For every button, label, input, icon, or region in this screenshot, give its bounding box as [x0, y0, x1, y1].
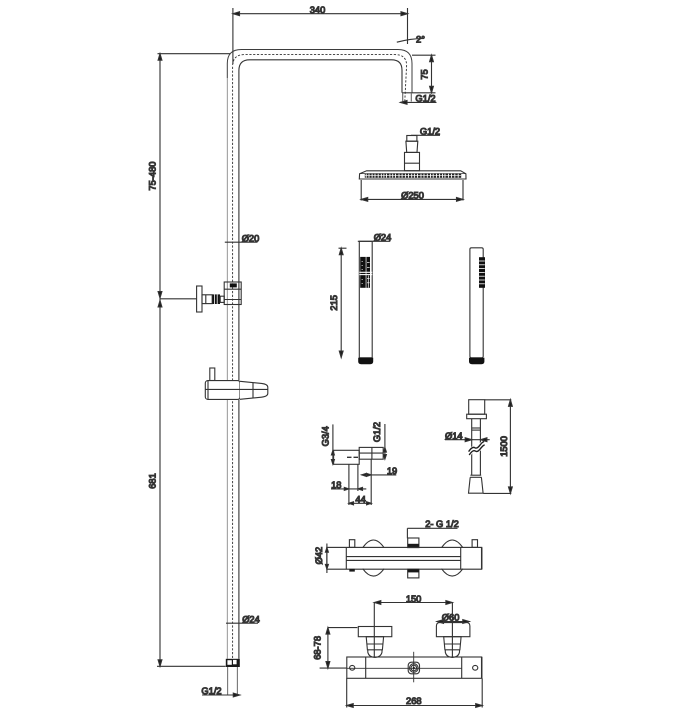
- left screw hole: [350, 665, 355, 670]
- svg-text:G1/2: G1/2: [420, 127, 440, 137]
- wall bracket knob plate: [197, 286, 202, 312]
- arm outlet nipple G1/2: [403, 93, 412, 102]
- mixer top view right valve dome arcs: [442, 540, 463, 576]
- label diameter 14 (hose): [445, 431, 490, 442]
- left escutcheon: [358, 627, 392, 637]
- svg-text:340: 340: [310, 5, 326, 15]
- dimension 75 (outlet drop): [412, 55, 436, 93]
- dimension diameter 60 (escutcheon): [436, 612, 470, 623]
- riser centre line (dashed): [233, 55, 407, 658]
- hose top fitting: [467, 400, 487, 419]
- wall bracket collar: [220, 296, 224, 302]
- mixer top view left tab: [349, 540, 354, 548]
- svg-text:G1/2: G1/2: [372, 422, 382, 442]
- svg-text:Ø24: Ø24: [374, 233, 392, 243]
- hand shower holder knob: [210, 368, 215, 381]
- dimension 340 (arm length): [233, 5, 408, 64]
- svg-text:2°: 2°: [416, 34, 425, 44]
- overhead shower connector stack: [405, 136, 420, 171]
- dimension 44: [349, 495, 371, 505]
- label diameter 20 (riser tube): [225, 233, 259, 243]
- svg-text:268: 268: [406, 696, 422, 706]
- svg-text:19: 19: [387, 466, 397, 476]
- svg-text:G1/2: G1/2: [201, 686, 221, 696]
- label diameter 24 (column bottom): [226, 614, 260, 624]
- svg-text:215: 215: [329, 295, 339, 311]
- right escutcheon: [436, 623, 470, 637]
- svg-text:2- G 1/2: 2- G 1/2: [425, 519, 459, 529]
- shower column riser tube: [227, 50, 412, 659]
- svg-text:75-480: 75-480: [148, 162, 158, 191]
- label G1/2 (head connector): [411, 127, 440, 137]
- wall bracket shaft: [202, 295, 212, 304]
- svg-text:G1/2: G1/2: [415, 94, 435, 104]
- left inlet centre line: [373, 603, 375, 658]
- label G1/2 (arm outlet): [400, 94, 437, 105]
- overhead shower head disc: [359, 171, 466, 179]
- mixer front body bar: [347, 657, 482, 678]
- hand shower side view inlet cap: [358, 358, 373, 364]
- hand shower front view spray strip: [478, 257, 485, 288]
- svg-text:18: 18: [331, 480, 341, 490]
- mixer top view lower port: [408, 569, 419, 578]
- dimension 1500 (hose length): [483, 400, 512, 494]
- label G1/2 (wall union outlet): [372, 422, 386, 459]
- svg-text:Ø14: Ø14: [445, 431, 463, 441]
- mixer top view left valve dome arcs: [363, 540, 384, 576]
- dimension 68-78 (wall distance): [313, 628, 358, 669]
- svg-text:44: 44: [355, 495, 365, 505]
- svg-text:Ø250: Ø250: [401, 191, 424, 201]
- right valve connector stack: [444, 637, 461, 658]
- hose bottom conical fitting: [469, 475, 484, 493]
- dimension 150 (inlet spacing): [374, 594, 452, 604]
- svg-text:Ø42: Ø42: [314, 547, 324, 565]
- svg-text:681: 681: [148, 473, 158, 489]
- hand shower holder body: [205, 381, 267, 400]
- hand shower front view body: [470, 248, 483, 358]
- label 2-G1/2 (mixer connections): [407, 519, 458, 538]
- label diameter 42 (mixer body): [314, 544, 329, 574]
- wall bracket body on tube: [224, 282, 241, 305]
- svg-text:G3/4: G3/4: [320, 426, 330, 446]
- dimension 268 (body width): [347, 678, 483, 707]
- mixer top view left lower mark: [349, 569, 355, 572]
- dimension 19 (wall union offset): [361, 466, 397, 476]
- svg-text:68-78: 68-78: [313, 636, 323, 660]
- hand shower side view body: [359, 241, 372, 357]
- label G3/4 (wall union inlet): [320, 424, 334, 464]
- hose break symbol: [469, 441, 485, 455]
- svg-text:Ø24: Ø24: [242, 614, 260, 624]
- mixer top view right tab: [472, 540, 477, 548]
- mixer top view upper port: [408, 538, 419, 548]
- hand shower side view spray plate: [359, 257, 372, 288]
- svg-text:75: 75: [420, 69, 430, 79]
- dimension 215 (hand shower length): [329, 248, 346, 357]
- svg-text:Ø20: Ø20: [242, 233, 260, 243]
- label diameter 24 (hand shower): [358, 233, 391, 243]
- right screw hole: [473, 665, 478, 670]
- mixer top view body bar: [327, 547, 482, 569]
- svg-text:1500: 1500: [499, 436, 509, 457]
- wall union body (left flange): [334, 450, 360, 464]
- hand shower front view inlet cap: [469, 358, 484, 364]
- angle 2 deg annotation: [397, 34, 425, 44]
- wall union stem extension lines: [349, 459, 371, 505]
- svg-text:150: 150: [406, 594, 422, 604]
- wall union outlet block (right): [359, 447, 383, 459]
- nozzle band: [365, 174, 461, 178]
- hose tube: [472, 419, 481, 476]
- hand shower holder cup: [240, 381, 268, 399]
- right inlet centre line: [451, 603, 453, 658]
- column bottom end fitting: [226, 659, 240, 667]
- left valve connector stack: [366, 637, 383, 658]
- label G1/2 (column bottom inlet): [201, 686, 240, 697]
- arm outlet end line: [402, 92, 412, 94]
- dimension 681 (column length): [148, 299, 226, 667]
- column bottom tail tube: [228, 667, 238, 695]
- dimension diameter 250 (head): [361, 180, 463, 201]
- centre outlet detail: [347, 652, 462, 683]
- dimension 75-480 (bracket height range): [148, 54, 231, 299]
- dimension 18: [331, 480, 366, 490]
- wall bracket threaded stud: [213, 294, 221, 304]
- svg-text:Ø60: Ø60: [442, 612, 460, 622]
